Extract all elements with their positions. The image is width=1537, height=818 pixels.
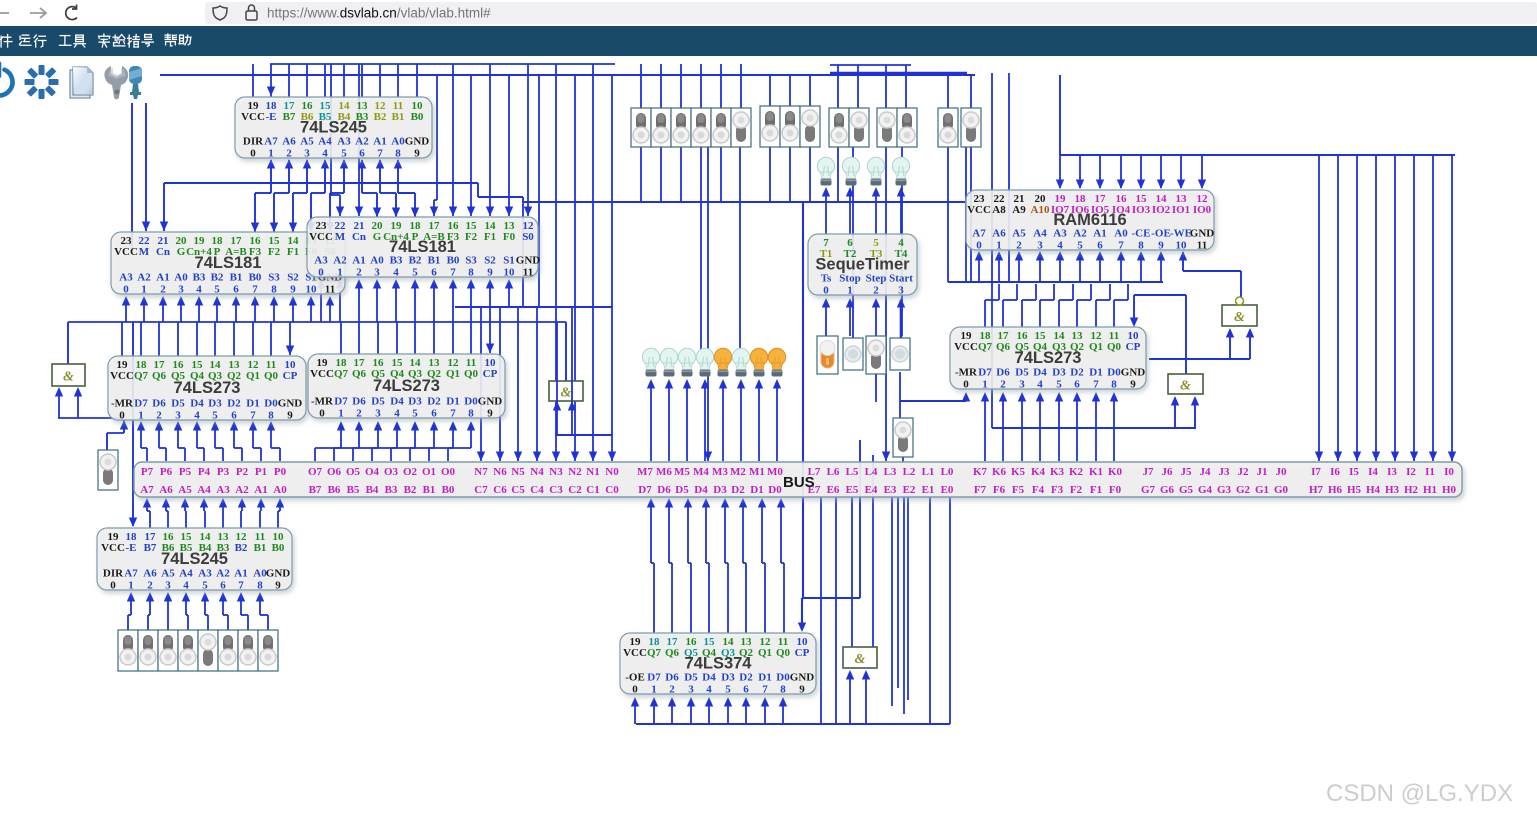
svg-text:6: 6: [359, 148, 365, 160]
svg-text:D0: D0: [464, 396, 478, 408]
svg-text:P0: P0: [274, 466, 287, 478]
svg-text:M: M: [335, 231, 346, 243]
svg-text:A4: A4: [197, 484, 211, 496]
svg-text:Q1: Q1: [1089, 341, 1103, 353]
wire SequeTimer bottom inputs: [825, 300, 827, 336]
svg-text:S2: S2: [287, 272, 299, 284]
svg-text:Cn: Cn: [352, 231, 366, 243]
svg-text:74LS181: 74LS181: [389, 238, 456, 256]
svg-text:D7: D7: [134, 398, 148, 410]
svg-text:B1: B1: [428, 255, 441, 267]
switch toggle (up): [671, 108, 691, 147]
svg-text:8: 8: [257, 580, 263, 592]
wire -WE link: [1183, 270, 1241, 272]
svg-text:D1: D1: [1089, 367, 1102, 379]
svg-text:8: 8: [268, 410, 274, 422]
svg-text:A0: A0: [391, 136, 405, 148]
svg-text:S3: S3: [465, 255, 477, 267]
svg-text:G7: G7: [1141, 484, 1156, 496]
svg-text:74LS245: 74LS245: [161, 550, 228, 568]
svg-text:A3: A3: [198, 568, 212, 580]
svg-text:1: 1: [268, 148, 274, 160]
wire below-bus right cluster: [820, 497, 822, 724]
lamp (c): [817, 157, 834, 185]
svg-text:&: &: [561, 386, 572, 401]
svg-text:A5: A5: [161, 568, 175, 580]
svg-text:74LS273: 74LS273: [174, 379, 241, 397]
wire crossers through U1 to 74LS181: [330, 64, 332, 195]
switch toggle (down): [198, 630, 218, 671]
svg-text:C1: C1: [586, 484, 599, 496]
svg-text:D1: D1: [758, 672, 771, 684]
svg-text:F4: F4: [1032, 484, 1045, 496]
chip U6 RAM6116: [966, 190, 1214, 252]
svg-text:E5: E5: [846, 484, 859, 496]
svg-text:&: &: [1234, 310, 1245, 325]
svg-text:D2: D2: [731, 484, 745, 496]
svg-text:1: 1: [338, 408, 344, 420]
switch toggle (down): [98, 450, 118, 490]
wire trunk top A (y=64): [270, 63, 615, 65]
svg-text:3: 3: [175, 410, 181, 422]
svg-text:D1: D1: [446, 396, 459, 408]
svg-text:D0: D0: [264, 398, 278, 410]
svg-text:Start: Start: [889, 273, 913, 285]
svg-text:I1: I1: [1425, 466, 1435, 478]
svg-text:A1: A1: [254, 484, 267, 496]
svg-text:Q6: Q6: [152, 370, 167, 382]
svg-text:VCC: VCC: [967, 204, 991, 216]
svg-text:&: &: [63, 370, 74, 385]
wire G6 b4 to switch G7: [899, 372, 901, 422]
svg-text:D0: D0: [776, 672, 790, 684]
lamp (o): [750, 348, 767, 376]
svg-text:N6: N6: [493, 466, 507, 478]
svg-text:74LS374: 74LS374: [685, 655, 753, 673]
AND gate (with bubble): [1222, 297, 1257, 326]
svg-text:0: 0: [110, 580, 116, 592]
AND gate: [549, 381, 583, 401]
svg-text:M7: M7: [637, 466, 653, 478]
svg-text:D2: D2: [427, 396, 441, 408]
svg-text:VCC: VCC: [309, 231, 333, 243]
svg-text:H1: H1: [1423, 484, 1437, 496]
svg-text:VCC: VCC: [114, 246, 138, 258]
wire bus N feeds: [480, 307, 482, 461]
svg-text:74LS245: 74LS245: [300, 119, 367, 137]
svg-text:GND: GND: [478, 396, 503, 408]
svg-text:&: &: [1180, 379, 1191, 394]
svg-text:5: 5: [1077, 240, 1083, 252]
wire -MR link rail y=401: [900, 400, 966, 402]
svg-text:F5: F5: [1012, 484, 1025, 496]
chip U7 SequeTimer: [808, 234, 917, 297]
svg-text:G2: G2: [1236, 484, 1251, 496]
svg-text:9: 9: [290, 284, 296, 296]
svg-text:D0: D0: [1107, 367, 1121, 379]
svg-text:IO2: IO2: [1152, 204, 1171, 216]
svg-text:S0: S0: [522, 231, 534, 243]
svg-text:F0: F0: [1109, 484, 1122, 496]
svg-text:Q0: Q0: [1107, 341, 1122, 353]
svg-text:A2: A2: [333, 255, 347, 267]
wire -E feed through bus: [132, 322, 134, 526]
svg-text:D6: D6: [657, 484, 671, 496]
lamp (c): [678, 348, 695, 376]
lamp (c): [867, 157, 884, 185]
svg-text:0: 0: [319, 408, 325, 420]
svg-text:I0: I0: [1444, 466, 1454, 478]
svg-text:A2: A2: [1073, 228, 1087, 240]
svg-text:A6: A6: [282, 136, 296, 148]
svg-text:I4: I4: [1368, 466, 1378, 478]
svg-text:B1: B1: [392, 111, 405, 123]
svg-text:C5: C5: [511, 484, 525, 496]
svg-text:G: G: [373, 231, 382, 243]
svg-text:A3: A3: [216, 484, 230, 496]
svg-text:N3: N3: [549, 466, 563, 478]
wire top switch G2 drops and downs: [769, 75, 771, 107]
svg-text:I2: I2: [1406, 466, 1416, 478]
svg-text:C3: C3: [549, 484, 563, 496]
svg-text:8: 8: [468, 408, 474, 420]
svg-text:6: 6: [431, 267, 437, 279]
svg-text:P7: P7: [141, 466, 154, 478]
svg-text:F6: F6: [993, 484, 1006, 496]
switch toggle (down): [877, 108, 897, 147]
svg-text:0: 0: [250, 148, 256, 160]
svg-text:IO3: IO3: [1132, 204, 1151, 216]
svg-text:D4: D4: [702, 672, 716, 684]
svg-text:BUS: BUS: [783, 474, 815, 491]
svg-text:A6: A6: [159, 484, 173, 496]
svg-text:2: 2: [873, 285, 879, 297]
wire SequeTimer top drops and bulb arrows: [825, 202, 827, 234]
svg-text:4: 4: [194, 410, 200, 422]
svg-text:M1: M1: [749, 466, 765, 478]
AND gate: [1168, 374, 1203, 394]
wire top switch G1 drops: [640, 64, 642, 108]
svg-text:B2: B2: [374, 111, 387, 123]
svg-text:74LS273: 74LS273: [1015, 349, 1082, 367]
wire trunk top thick (y=73): [830, 72, 967, 75]
svg-text:7: 7: [450, 267, 456, 279]
svg-text:A7: A7: [140, 484, 154, 496]
svg-text:A7: A7: [124, 568, 138, 580]
svg-text:D7: D7: [978, 367, 992, 379]
wire 374 bottom rail y=724: [636, 723, 950, 725]
svg-text:B1: B1: [254, 542, 267, 554]
svg-text:A9: A9: [1012, 204, 1026, 216]
svg-text:2: 2: [156, 410, 162, 422]
switch toggle (up): [897, 108, 917, 147]
svg-text:9: 9: [414, 148, 420, 160]
svg-text:6: 6: [231, 410, 237, 422]
wire U5 top stubs: [340, 322, 342, 354]
svg-text:S1: S1: [503, 255, 515, 267]
wire bus K to U8 D feeds: [984, 394, 986, 461]
svg-text:P2: P2: [236, 466, 249, 478]
svg-text:K5: K5: [1011, 466, 1026, 478]
svg-text:E3: E3: [884, 484, 897, 496]
svg-text:D3: D3: [408, 396, 422, 408]
svg-text:2: 2: [286, 148, 292, 160]
svg-text:6: 6: [233, 284, 239, 296]
switch push-button: [843, 338, 863, 370]
svg-text:6: 6: [1097, 240, 1103, 252]
svg-text:O1: O1: [422, 466, 436, 478]
wire trunk mid-left (y=183): [164, 182, 478, 184]
svg-text:D5: D5: [1015, 367, 1029, 379]
svg-text:E6: E6: [827, 484, 840, 496]
wire gateA input rail y=418: [58, 417, 124, 419]
svg-text:I5: I5: [1349, 466, 1359, 478]
svg-text:B2: B2: [235, 542, 248, 554]
switch toggle (down): [800, 106, 820, 147]
svg-text:CP: CP: [483, 368, 498, 380]
svg-text:I6: I6: [1330, 466, 1340, 478]
chip U5 74LS273 (mid): [308, 354, 505, 420]
svg-text:D3: D3: [713, 484, 727, 496]
svg-text:Q1: Q1: [758, 647, 772, 659]
wire G3 bottoms down to G6: [837, 147, 839, 202]
svg-text:SequeTimer: SequeTimer: [815, 256, 910, 274]
svg-text:4: 4: [196, 284, 202, 296]
svg-text:K0: K0: [1108, 466, 1123, 478]
svg-text:3: 3: [1019, 379, 1025, 391]
switch toggle (up): [258, 630, 278, 671]
svg-text:J7: J7: [1143, 466, 1155, 478]
svg-text:A0: A0: [273, 484, 287, 496]
svg-text:D6: D6: [352, 396, 366, 408]
svg-text:H5: H5: [1347, 484, 1362, 496]
svg-text:8: 8: [468, 267, 474, 279]
lamp (o): [768, 348, 785, 376]
svg-text:1: 1: [847, 285, 853, 297]
svg-text:H2: H2: [1404, 484, 1419, 496]
svg-text:0: 0: [119, 410, 125, 422]
svg-text:9: 9: [1158, 240, 1164, 252]
lamp (c): [892, 157, 909, 185]
svg-text:A10: A10: [1031, 204, 1050, 216]
svg-text:A0: A0: [174, 272, 188, 284]
svg-text:B7: B7: [144, 542, 157, 554]
svg-text:GND: GND: [516, 255, 541, 267]
svg-text:D3: D3: [1052, 367, 1066, 379]
svg-text:O6: O6: [327, 466, 342, 478]
switch toggle (down): [893, 418, 913, 457]
switch toggle (down): [731, 108, 751, 147]
svg-text:5: 5: [341, 148, 347, 160]
svg-text:P3: P3: [217, 466, 230, 478]
svg-text:F2: F2: [268, 246, 281, 258]
wire gateC input rail y=359: [1149, 358, 1250, 360]
svg-text:K2: K2: [1069, 466, 1084, 478]
wire U4 CP: [289, 322, 291, 355]
svg-text:B0: B0: [447, 255, 460, 267]
svg-text:B0: B0: [272, 542, 285, 554]
svg-text:D7: D7: [647, 672, 661, 684]
svg-text:A3: A3: [119, 272, 133, 284]
svg-text:H0: H0: [1442, 484, 1457, 496]
svg-text:E2: E2: [903, 484, 916, 496]
svg-text:A7: A7: [972, 228, 986, 240]
svg-text:D6: D6: [152, 398, 166, 410]
svg-text:GND: GND: [1190, 228, 1215, 240]
svg-text:0: 0: [318, 267, 324, 279]
svg-text:B2: B2: [409, 255, 422, 267]
svg-text:B7: B7: [309, 484, 322, 496]
svg-text:-MR: -MR: [111, 398, 134, 410]
switch toggle (up): [691, 108, 711, 147]
svg-text:6: 6: [431, 408, 437, 420]
svg-text:E0: E0: [941, 484, 954, 496]
svg-text:A1: A1: [352, 255, 365, 267]
wire trunk row y=307: [455, 306, 612, 308]
switch toggle (up): [158, 630, 178, 671]
svg-text:A4: A4: [1033, 228, 1047, 240]
svg-text:Q0: Q0: [264, 370, 279, 382]
wire U9 bottom stubs: [634, 699, 636, 724]
svg-text:C4: C4: [530, 484, 544, 496]
svg-text:L4: L4: [865, 466, 878, 478]
switch toggle (up): [218, 630, 238, 671]
svg-text:A1: A1: [373, 136, 386, 148]
svg-text:https://www.dsvlab.cn/vlab/vla: https://www.dsvlab.cn/vlab/vlab.html#: [267, 6, 491, 21]
svg-text:1: 1: [996, 240, 1002, 252]
svg-text:5: 5: [412, 408, 418, 420]
svg-text:VCC: VCC: [310, 368, 334, 380]
svg-text:9: 9: [799, 684, 805, 696]
icon documents: [70, 70, 90, 98]
svg-text:L5: L5: [846, 466, 859, 478]
wire U5 CP: [489, 307, 491, 353]
svg-text:Q0: Q0: [464, 368, 479, 380]
switch toggle (up): [178, 630, 198, 671]
svg-text:GND: GND: [405, 136, 430, 148]
switch toggle (up): [651, 108, 671, 147]
svg-text:B3: B3: [385, 484, 398, 496]
svg-text:Stop: Stop: [839, 273, 860, 285]
svg-text:D5: D5: [684, 672, 698, 684]
svg-text:C7: C7: [474, 484, 488, 496]
wire RAM IO drops: [1059, 155, 1061, 188]
svg-text:D3: D3: [208, 398, 222, 410]
svg-text:5: 5: [212, 410, 218, 422]
svg-text:L1: L1: [922, 466, 935, 478]
svg-text:D7: D7: [334, 396, 348, 408]
svg-text:2: 2: [356, 408, 362, 420]
svg-text:F7: F7: [974, 484, 987, 496]
svg-text:-MR: -MR: [311, 396, 334, 408]
svg-text:11: 11: [1197, 240, 1207, 252]
svg-text:N0: N0: [605, 466, 619, 478]
svg-text:A6: A6: [143, 568, 157, 580]
svg-text:Q6: Q6: [996, 341, 1011, 353]
svg-text:F0: F0: [503, 231, 516, 243]
wire toolbar stubs down to U2: [131, 103, 133, 250]
svg-text:M6: M6: [656, 466, 672, 478]
svg-text:2: 2: [160, 284, 166, 296]
wire U1 bottom to 181 chips: [270, 160, 272, 193]
wire RAM bottom stubs: [978, 253, 980, 282]
switch toggle (up): [829, 108, 849, 147]
svg-text:H7: H7: [1309, 484, 1324, 496]
svg-text:P1: P1: [255, 466, 267, 478]
svg-text:A3: A3: [1053, 228, 1067, 240]
wire bus O to U5 D zigzags: [340, 423, 342, 448]
svg-text:B4: B4: [366, 484, 379, 496]
svg-text:M2: M2: [730, 466, 746, 478]
svg-text:11: 11: [325, 284, 335, 296]
wire long vertical to bus L3: [885, 147, 887, 461]
svg-text:Q6: Q6: [352, 368, 367, 380]
svg-text:1: 1: [128, 580, 134, 592]
svg-text:J1: J1: [1257, 466, 1268, 478]
svg-text:3: 3: [178, 284, 184, 296]
svg-text:F1: F1: [287, 246, 299, 258]
svg-text:7: 7: [238, 580, 244, 592]
svg-text:B6: B6: [328, 484, 341, 496]
svg-text:A4: A4: [318, 136, 332, 148]
wire top switch G3 drops: [837, 65, 839, 108]
svg-text:B1: B1: [423, 484, 436, 496]
svg-text:D5: D5: [171, 398, 185, 410]
svg-text:1: 1: [651, 684, 657, 696]
svg-text:F2: F2: [1070, 484, 1083, 496]
svg-text:CP: CP: [1126, 341, 1141, 353]
wire gateA connections: [67, 322, 69, 364]
svg-text:A3: A3: [337, 136, 351, 148]
svg-text:VCC: VCC: [241, 111, 265, 123]
wire trunk row y=322: [68, 321, 566, 323]
wire U2 bottom stubs: [125, 298, 127, 322]
svg-text:B0: B0: [442, 484, 455, 496]
svg-text:O3: O3: [384, 466, 399, 478]
svg-text:Q7: Q7: [647, 647, 662, 659]
switch toggle (up): [780, 106, 800, 147]
svg-text:10: 10: [504, 267, 516, 279]
svg-text:A2: A2: [137, 272, 151, 284]
svg-text:Cn: Cn: [156, 246, 170, 258]
svg-text:2: 2: [1000, 379, 1006, 391]
svg-text:D2: D2: [1070, 367, 1084, 379]
wire trunk top C (y=65): [830, 64, 911, 66]
svg-text:6: 6: [1074, 379, 1080, 391]
svg-text:VCC: VCC: [954, 341, 978, 353]
svg-text:-OE: -OE: [625, 672, 645, 684]
svg-text:G3: G3: [1217, 484, 1232, 496]
svg-text:0: 0: [123, 284, 129, 296]
svg-text:M0: M0: [767, 466, 783, 478]
svg-text:M3: M3: [712, 466, 728, 478]
svg-text:L3: L3: [884, 466, 897, 478]
svg-text:N2: N2: [568, 466, 582, 478]
svg-text:A4: A4: [179, 568, 193, 580]
svg-text:1: 1: [337, 267, 343, 279]
svg-text:A7: A7: [264, 136, 278, 148]
svg-text:4: 4: [393, 267, 399, 279]
wire gateD input rail y=428: [992, 427, 1196, 429]
svg-text:B2: B2: [404, 484, 417, 496]
chip U9 74LS374: [620, 633, 816, 696]
svg-text:O4: O4: [365, 466, 380, 478]
svg-text:D2: D2: [739, 672, 753, 684]
svg-text:A5: A5: [1012, 228, 1026, 240]
svg-text:A2: A2: [235, 484, 249, 496]
svg-text:5: 5: [1056, 379, 1062, 391]
svg-text:F2: F2: [465, 231, 478, 243]
